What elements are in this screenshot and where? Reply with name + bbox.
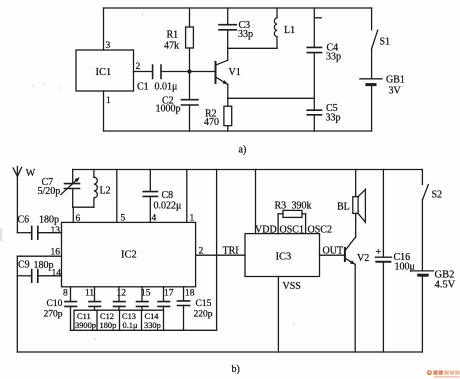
svg-text:IC3: IC3: [276, 252, 292, 263]
svg-text:2: 2: [136, 62, 141, 72]
battery GB1 3V: [360, 48, 405, 131]
capacitor C7 variable 5/20p: [38, 170, 80, 208]
svg-text:15: 15: [141, 289, 151, 299]
svg-text:180p: 180p: [34, 260, 54, 271]
wire OUT: [320, 246, 345, 257]
svg-text:a): a): [239, 145, 247, 156]
capacitor C15 / pin 18: [178, 287, 213, 331]
capacitor C6 / pin 13: [17, 215, 61, 240]
switch S1: [372, 8, 390, 48]
wire LC tank bottom: [73, 206, 94, 208]
wire bottom rail a: [104, 130, 372, 132]
svg-text:BL: BL: [337, 202, 350, 213]
svg-text:13: 13: [51, 226, 61, 236]
pin 16 IC2 wire: [17, 248, 61, 258]
inductor L1: [274, 8, 295, 48]
pin 1 IC2: [187, 170, 195, 224]
capacitor C12 / pin 12: [114, 287, 127, 310]
svg-text:C6: C6: [18, 215, 30, 226]
svg-text:IC2: IC2: [121, 250, 137, 261]
svg-text:OSC2: OSC2: [308, 224, 332, 235]
speaker BL: [337, 170, 365, 238]
capacitor C5: [307, 98, 340, 131]
svg-text:R1: R1: [167, 30, 179, 41]
svg-text:b): b): [232, 364, 240, 375]
noise specks: [0, 13, 294, 340]
svg-text:47k: 47k: [164, 41, 179, 52]
capacitor C13 / pin 15: [137, 287, 151, 310]
svg-text:16: 16: [51, 248, 61, 258]
node label box row C11-C14: [74, 310, 164, 330]
transistor V1: [216, 60, 241, 84]
svg-text:33p: 33p: [326, 113, 341, 124]
svg-text:33p: 33p: [326, 52, 341, 63]
svg-text:390k: 390k: [292, 201, 312, 212]
wire V1 emitter down: [227, 84, 229, 98]
svg-text:GB1: GB1: [386, 75, 405, 86]
svg-text:1: 1: [106, 96, 111, 106]
svg-text:18: 18: [185, 289, 195, 299]
svg-text:TRI: TRI: [223, 246, 239, 257]
capacitor C11 / pin 11: [85, 287, 101, 310]
svg-text:0.01μ: 0.01μ: [155, 82, 178, 93]
svg-text:33p: 33p: [238, 29, 253, 40]
svg-text:220p: 220p: [194, 310, 213, 320]
svg-text:8: 8: [63, 289, 68, 299]
svg-text:+: +: [376, 247, 382, 258]
pin 2 IC2 / TRI wire: [196, 246, 245, 257]
wire vertical rail to caps row: [216, 170, 218, 331]
svg-text:OSC1: OSC1: [280, 224, 304, 235]
svg-text:270p: 270p: [44, 310, 63, 320]
transistor V2: [345, 238, 369, 353]
svg-text:C12: C12: [100, 312, 114, 321]
wire bottom rail b: [17, 351, 422, 353]
capacitor C14 / pin 17: [158, 287, 174, 310]
svg-text:V2: V2: [357, 253, 369, 264]
svg-text:S2: S2: [432, 190, 443, 201]
wire left vertical to bottom rail: [16, 256, 18, 352]
node junction C1/R1/base: [187, 69, 191, 73]
label b): [232, 364, 240, 375]
svg-text:C13: C13: [122, 312, 136, 321]
svg-text:2: 2: [199, 247, 204, 257]
svg-text:L1: L1: [284, 25, 295, 36]
resistor R1: [164, 8, 193, 72]
svg-text:0.1μ: 0.1μ: [123, 321, 138, 330]
svg-text:180p: 180p: [100, 321, 117, 330]
node OSC separators: [278, 214, 332, 236]
svg-text:C10: C10: [47, 299, 63, 309]
pin 6 IC2: [73, 207, 80, 224]
pin 1 IC1: [104, 91, 112, 131]
svg-text:470: 470: [204, 117, 219, 128]
svg-text:VSS: VSS: [283, 281, 301, 292]
pin 3 IC1: [104, 8, 111, 51]
svg-text:3: 3: [106, 41, 111, 51]
capacitor C4: [307, 8, 341, 98]
antenna W: [13, 166, 36, 232]
svg-text:OUT: OUT: [323, 246, 344, 257]
inductor L2: [94, 170, 111, 208]
svg-text:3900p: 3900p: [75, 321, 96, 330]
wire node to V1 base: [190, 71, 216, 73]
pin 2 IC1 / wire: [134, 62, 153, 72]
wire top rail b: [73, 169, 423, 171]
wire caps bottom rail: [71, 329, 217, 331]
svg-text:180p: 180p: [39, 215, 59, 226]
capacitor C3: [219, 8, 253, 60]
label a): [239, 145, 247, 156]
switch S2: [422, 170, 442, 201]
svg-text:S1: S1: [380, 37, 391, 48]
svg-text:VDD: VDD: [255, 224, 277, 235]
svg-text:V1: V1: [229, 67, 241, 78]
op-amp U3 : IC3 box: [245, 234, 320, 277]
watermark logo: [427, 370, 460, 378]
capacitor C1: [137, 65, 190, 93]
wire C3/L1 junction to L1: [228, 47, 277, 49]
capacitor C2: [156, 72, 199, 132]
op-amp U1 : IC1 box: [76, 50, 134, 91]
battery GB2 4.5V: [412, 199, 455, 352]
svg-text:C8: C8: [162, 190, 174, 201]
svg-text:12: 12: [117, 289, 127, 299]
svg-text:L2: L2: [100, 186, 111, 197]
wire top rail a: [104, 7, 372, 9]
svg-text:3V: 3V: [389, 86, 402, 97]
svg-text:1000p: 1000p: [156, 104, 181, 115]
svg-text:C11: C11: [77, 312, 91, 321]
svg-text:0.022μ: 0.022μ: [154, 201, 182, 212]
svg-text:4.5V: 4.5V: [435, 280, 456, 291]
svg-text:5/20p: 5/20p: [38, 186, 61, 197]
svg-text:C9: C9: [18, 260, 30, 271]
capacitor C16 100u electrolytic: [375, 170, 415, 353]
op-amp U2 : IC2 box: [62, 222, 196, 286]
svg-text:330p: 330p: [144, 321, 161, 330]
capacitor C10 / pin 8: [44, 287, 77, 331]
svg-text:W: W: [26, 168, 36, 179]
svg-text:R3: R3: [275, 201, 287, 212]
wire VSS to ground rail: [278, 277, 300, 353]
wire VDD supply: [255, 170, 277, 236]
capacitor C8 / pin 4: [143, 170, 181, 224]
svg-text:IC1: IC1: [96, 67, 112, 78]
capacitor C9 / pin 14: [17, 260, 61, 283]
pin 5 IC2: [117, 170, 126, 224]
svg-text:C1: C1: [137, 82, 149, 93]
svg-text:14: 14: [52, 269, 62, 279]
svg-text:C15: C15: [196, 299, 212, 309]
svg-text:C14: C14: [145, 312, 160, 321]
svg-text:11: 11: [85, 289, 94, 299]
wire emitter row to C4/C5: [228, 97, 314, 99]
resistor R3 390k: [275, 201, 312, 218]
resistor R2: [204, 98, 232, 131]
svg-text:17: 17: [164, 289, 174, 299]
